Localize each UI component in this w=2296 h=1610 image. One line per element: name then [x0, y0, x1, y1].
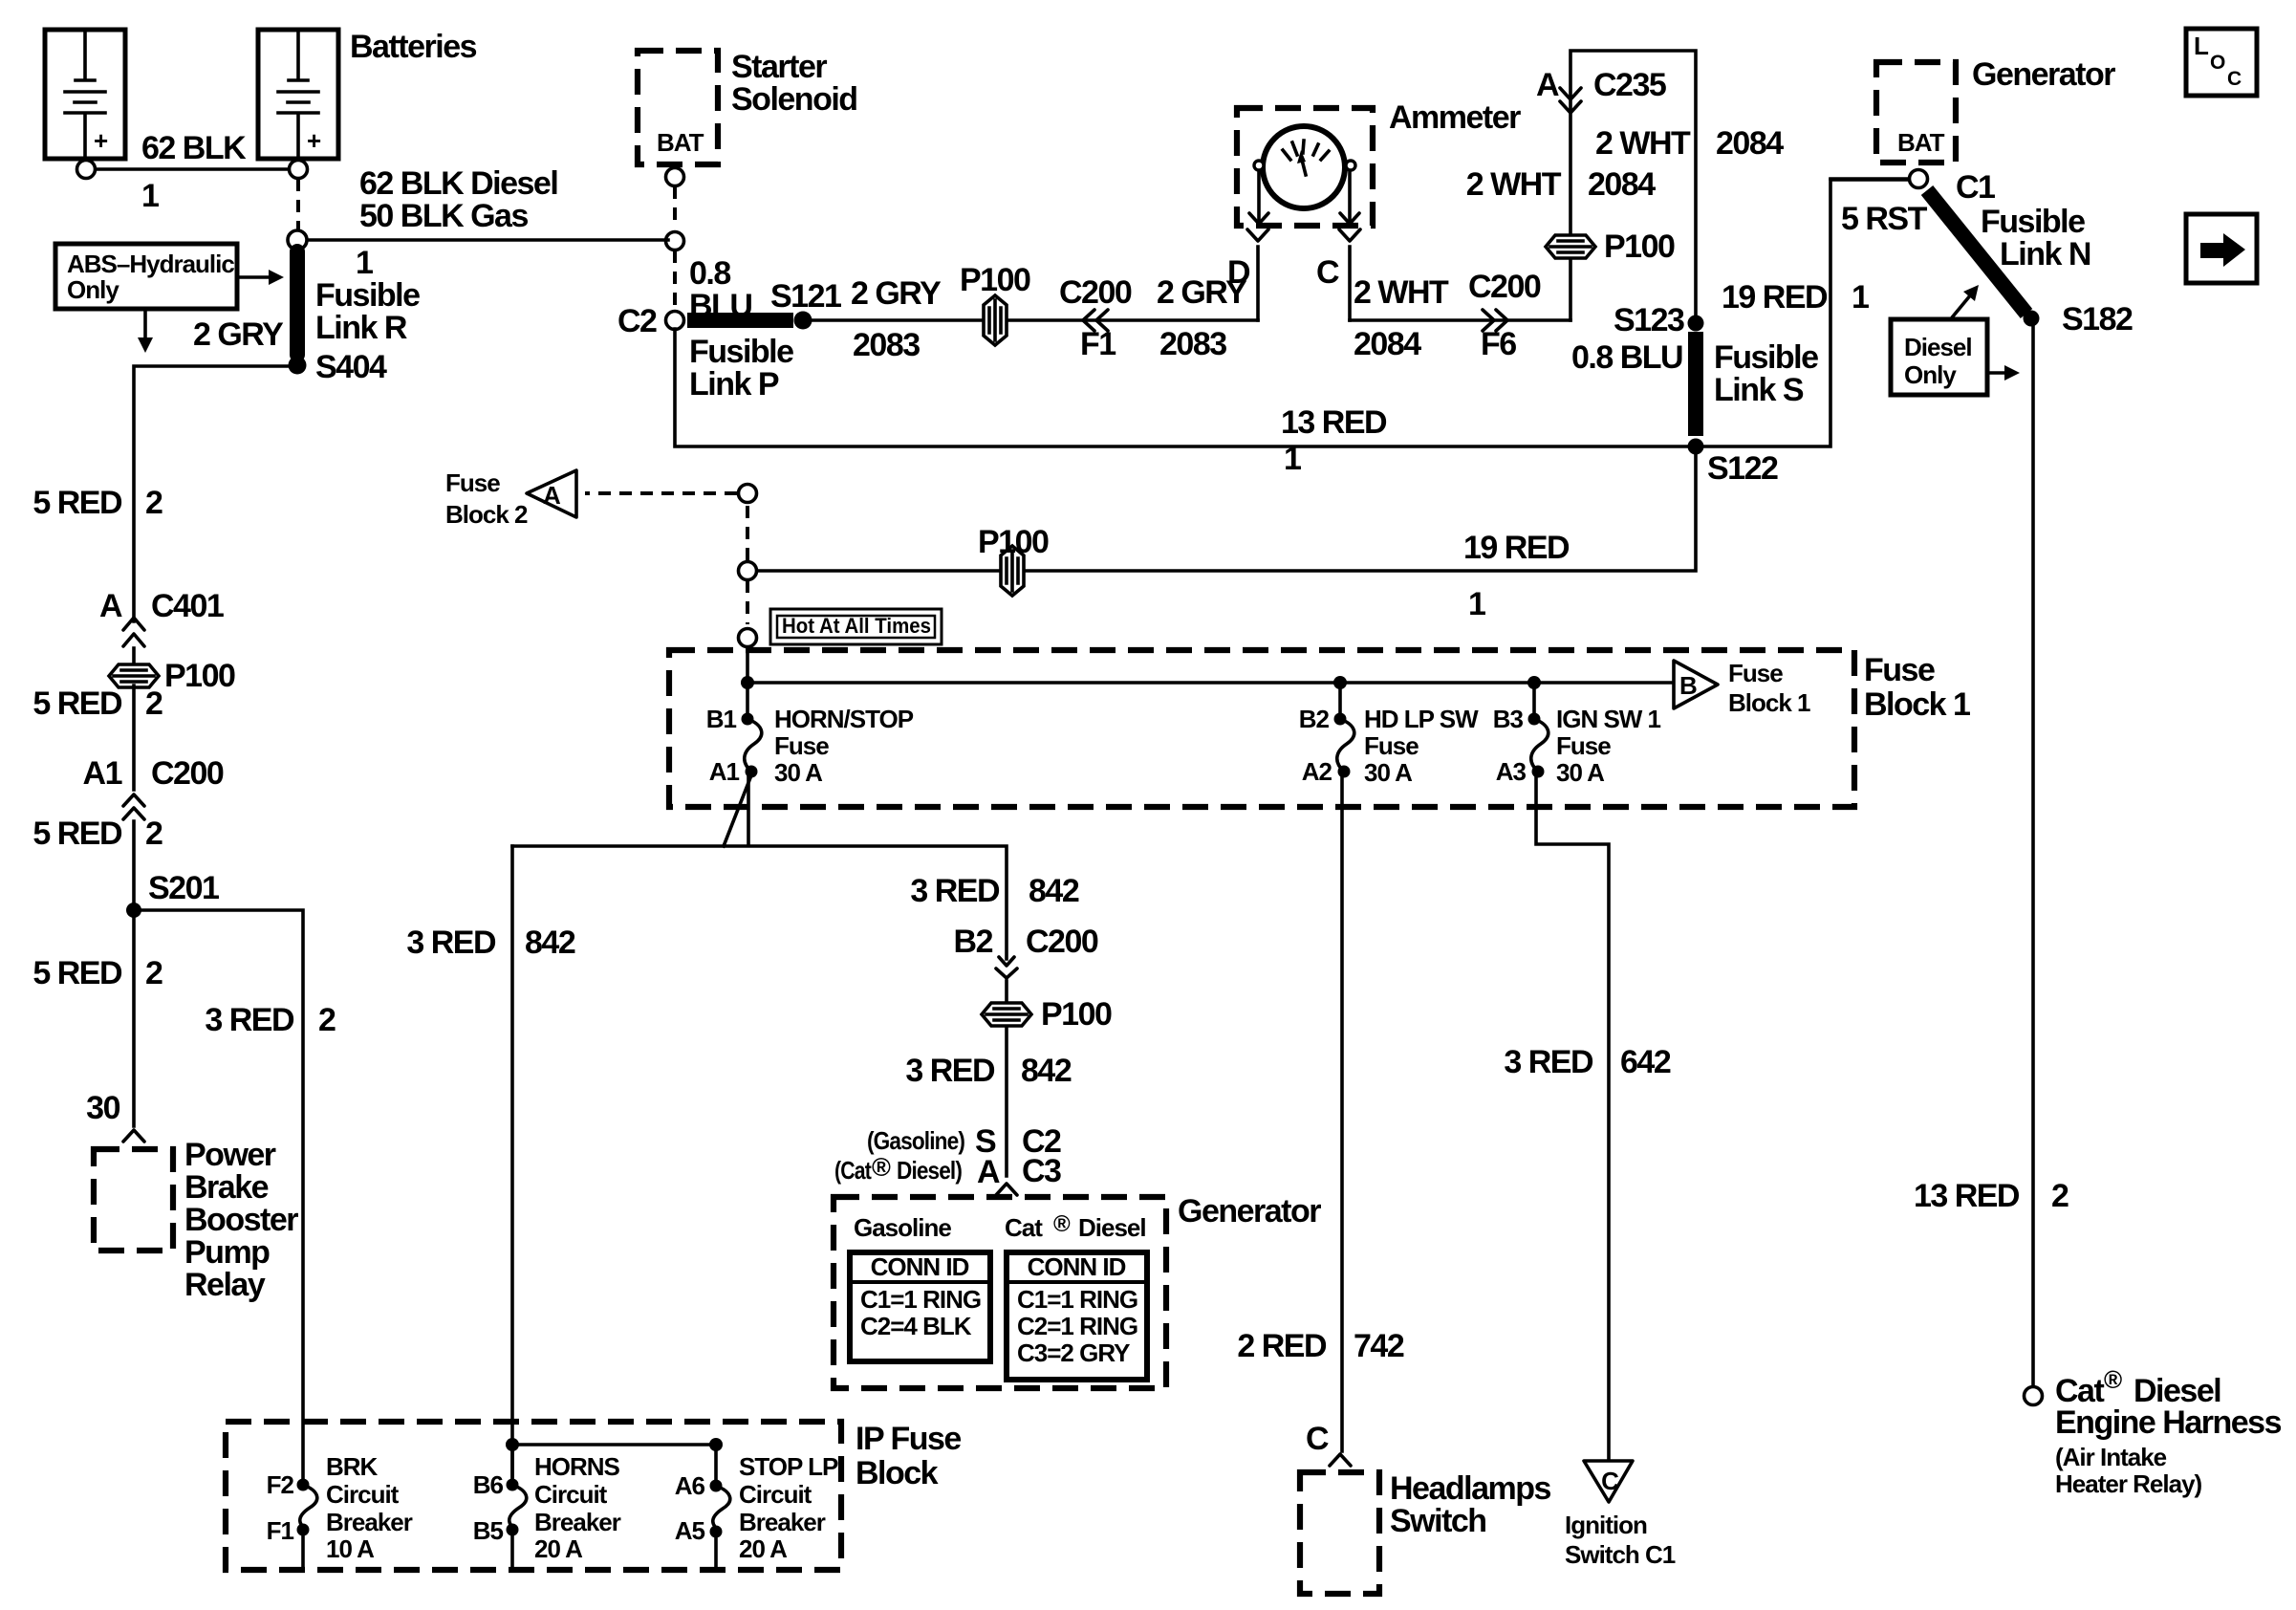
- svg-text:1: 1: [1468, 586, 1485, 622]
- svg-text:A5: A5: [675, 1516, 705, 1545]
- wire 5 RED 2: [132, 685, 136, 790]
- svg-text:S123: S123: [1614, 302, 1684, 338]
- svg-text:(Air Intake: (Air Intake: [2055, 1443, 2167, 1471]
- svg-text:Fuse: Fuse: [1864, 652, 1935, 688]
- wire BAT to 13 RED: [1830, 177, 1909, 181]
- svg-text:Gasoline: Gasoline: [854, 1213, 951, 1242]
- svg-text:Block 2: Block 2: [445, 500, 528, 529]
- svg-text:Block 1: Block 1: [1728, 688, 1810, 717]
- fuse block 1 dashed box: [669, 650, 1854, 807]
- svg-text:A6: A6: [675, 1471, 705, 1500]
- generator BAT terminal: [1910, 170, 1928, 188]
- svg-text:Fuse: Fuse: [1728, 659, 1783, 687]
- svg-text:62 BLK: 62 BLK: [141, 130, 247, 166]
- ammeter terminal left: [1254, 161, 1264, 170]
- wire left terminal down w arrow: [1257, 171, 1261, 223]
- arrow ABS to fusible link R: [237, 275, 273, 279]
- node S122: [1688, 439, 1704, 455]
- svg-text:2 WHT: 2 WHT: [1595, 125, 1691, 162]
- fuse HD LP SW 30A: [1338, 683, 1342, 719]
- svg-text:P100: P100: [1604, 228, 1675, 265]
- svg-text:3 RED: 3 RED: [910, 873, 1000, 909]
- svg-text:842: 842: [1029, 873, 1079, 909]
- node bus B3: [1527, 676, 1541, 689]
- svg-text:F6: F6: [1481, 326, 1516, 362]
- svg-text:2 WHT: 2 WHT: [1466, 166, 1562, 203]
- svg-text:A: A: [543, 481, 561, 510]
- svg-text:BAT: BAT: [657, 128, 704, 157]
- svg-text:50 BLK Gas: 50 BLK Gas: [359, 198, 528, 234]
- generator dashed box: [834, 1197, 1166, 1388]
- LOC symbol box: [2186, 29, 2257, 96]
- svg-text:®: ®: [2104, 1365, 2122, 1394]
- connector P100 left: [109, 664, 159, 687]
- wire S182 down to harness: [2031, 318, 2035, 1385]
- svg-text:2 GRY: 2 GRY: [193, 316, 284, 353]
- svg-text:C2: C2: [617, 303, 657, 339]
- ignition switch triangle C: [1584, 1461, 1633, 1502]
- fuse IGN SW 1 30A: [1532, 683, 1536, 719]
- battery 2: [258, 30, 338, 159]
- svg-text:2: 2: [145, 485, 162, 521]
- svg-text:Hot At All Times: Hot At All Times: [782, 614, 931, 638]
- svg-text:Booster: Booster: [184, 1202, 298, 1238]
- svg-text:19 RED: 19 RED: [1463, 530, 1570, 566]
- battery 1 terminal: [77, 161, 96, 179]
- svg-text:B: B: [1679, 671, 1697, 700]
- svg-text:C1=1 RING: C1=1 RING: [1017, 1285, 1137, 1314]
- wire 62 BLK between batteries: [96, 167, 289, 171]
- svg-text:2 WHT: 2 WHT: [1354, 274, 1449, 311]
- node S201: [126, 903, 141, 918]
- svg-text:®: ®: [872, 1153, 891, 1182]
- svg-text:D: D: [1227, 254, 1250, 291]
- svg-text:Relay: Relay: [184, 1267, 266, 1303]
- node S404: [289, 357, 307, 375]
- svg-text:2 GRY: 2 GRY: [851, 275, 942, 312]
- svg-text:2 RED: 2 RED: [1237, 1328, 1327, 1364]
- svg-text:B3: B3: [1493, 705, 1524, 733]
- wire 2 WHT 2084: [1350, 318, 1570, 322]
- svg-text:62 BLK Diesel: 62 BLK Diesel: [359, 165, 557, 202]
- dashed wire to fuse block 2 triangle: [585, 491, 737, 495]
- svg-text:B2: B2: [1299, 705, 1330, 733]
- svg-text:Switch C1: Switch C1: [1565, 1540, 1676, 1569]
- svg-text:Fuse: Fuse: [1364, 731, 1419, 760]
- svg-text:BRK: BRK: [326, 1452, 379, 1481]
- svg-text:Circuit: Circuit: [534, 1480, 608, 1509]
- node hot at all times: [739, 629, 757, 647]
- svg-text:S122: S122: [1707, 450, 1778, 487]
- svg-text:C3: C3: [1022, 1153, 1061, 1189]
- svg-text:ABS–Hydraulic: ABS–Hydraulic: [67, 250, 234, 278]
- wire A1 diagonal branch: [724, 775, 751, 846]
- ammeter box: [1237, 108, 1373, 226]
- connector chevron into generator: [996, 1184, 1017, 1195]
- svg-text:C200: C200: [1059, 274, 1132, 311]
- conn id table cat diesel: [1007, 1252, 1147, 1380]
- fusible link S: [1688, 332, 1703, 436]
- svg-text:2: 2: [145, 816, 162, 852]
- svg-text:P100: P100: [1041, 996, 1112, 1033]
- svg-text:A2: A2: [1302, 757, 1332, 786]
- connector P100 generator feed: [982, 1003, 1031, 1026]
- svg-text:C200: C200: [1468, 269, 1541, 305]
- svg-text:C2=1 RING: C2=1 RING: [1017, 1312, 1137, 1340]
- svg-text:2083: 2083: [853, 327, 920, 363]
- headlamps switch dashed box: [1300, 1472, 1379, 1594]
- wire C drop from ammeter: [1348, 247, 1352, 320]
- svg-text:1: 1: [1852, 279, 1869, 315]
- fusible link P: [687, 313, 793, 328]
- Hot At All Times label box: [770, 609, 942, 644]
- svg-text:O: O: [2210, 52, 2225, 74]
- svg-text:BAT: BAT: [1897, 128, 1945, 157]
- svg-text:B5: B5: [473, 1516, 504, 1545]
- svg-text:C: C: [1316, 254, 1339, 291]
- svg-text:5 RST: 5 RST: [1841, 201, 1928, 237]
- svg-text:Fusible: Fusible: [689, 334, 793, 370]
- bus wire: [747, 681, 1671, 685]
- svg-text:Solenoid: Solenoid: [731, 81, 857, 118]
- right arrow box: [2186, 214, 2257, 283]
- dashed wire junction to C2: [673, 250, 677, 308]
- svg-text:Switch: Switch: [1390, 1503, 1486, 1539]
- svg-text:C: C: [1601, 1467, 1619, 1495]
- svg-text:2: 2: [2051, 1178, 2069, 1214]
- svg-text:Link N: Link N: [2000, 236, 2090, 272]
- generator top dashed box: [1876, 62, 1956, 163]
- battery 1: [45, 30, 125, 159]
- wire loop via C235: [1570, 51, 1696, 320]
- svg-text:19 RED: 19 RED: [1722, 279, 1828, 315]
- fusible link N diagonal: [1927, 190, 2026, 314]
- diesel only box: [1891, 285, 2020, 395]
- node battery junction: [288, 230, 307, 250]
- svg-text:C200: C200: [151, 755, 224, 792]
- svg-text:(Cat: (Cat: [834, 1156, 872, 1185]
- svg-text:A: A: [1536, 67, 1559, 103]
- svg-text:5 RED: 5 RED: [32, 955, 122, 991]
- svg-text:Ignition: Ignition: [1565, 1511, 1647, 1539]
- starter BAT terminal: [666, 168, 684, 186]
- wire 13 RED 1: [675, 180, 1909, 446]
- svg-text:C1: C1: [1956, 169, 1995, 206]
- svg-text:20 A: 20 A: [534, 1534, 583, 1563]
- svg-text:IGN SW 1: IGN SW 1: [1556, 705, 1661, 733]
- svg-text:Engine Harness: Engine Harness: [2055, 1404, 2282, 1441]
- node bus B2: [1333, 676, 1347, 689]
- svg-text:A1: A1: [83, 755, 122, 792]
- svg-text:5 RED: 5 RED: [32, 816, 122, 852]
- fuse block 1 triangle B: [1674, 661, 1718, 708]
- svg-text:Generator: Generator: [1972, 56, 2115, 93]
- svg-text:Block 1: Block 1: [1864, 686, 1970, 723]
- svg-text:3 RED: 3 RED: [205, 1002, 294, 1038]
- svg-text:Only: Only: [1904, 360, 1957, 389]
- svg-text:3 RED: 3 RED: [406, 925, 496, 961]
- battery 2 terminal: [290, 161, 308, 179]
- svg-text:B6: B6: [473, 1470, 504, 1499]
- wire right terminal down w arrow: [1348, 171, 1352, 223]
- svg-text:Cat: Cat: [1005, 1213, 1043, 1242]
- ammeter terminal right: [1346, 161, 1355, 170]
- svg-text:742: 742: [1354, 1328, 1404, 1364]
- svg-text:2084: 2084: [1716, 125, 1784, 162]
- svg-text:Fuse: Fuse: [445, 468, 500, 497]
- svg-text:842: 842: [525, 925, 575, 961]
- svg-text:Circuit: Circuit: [326, 1480, 400, 1509]
- svg-text:30 A: 30 A: [774, 758, 823, 787]
- svg-text:Link R: Link R: [315, 310, 407, 346]
- wire 5 RED 2 below C200: [132, 821, 136, 910]
- connector P100 inline: [984, 295, 1007, 345]
- svg-text:C401: C401: [151, 588, 224, 624]
- svg-text:Circuit: Circuit: [739, 1480, 812, 1509]
- svg-text:®: ®: [1053, 1211, 1071, 1237]
- svg-text:5 RED: 5 RED: [32, 485, 122, 521]
- starter solenoid box: [638, 51, 718, 164]
- fuse block 2 triangle A: [527, 470, 576, 517]
- connector C200 F6 chevrons: [1483, 310, 1507, 331]
- svg-text:Only: Only: [67, 275, 119, 304]
- svg-text:S121: S121: [770, 278, 841, 315]
- svg-text:F1: F1: [1080, 326, 1116, 362]
- svg-text:30 A: 30 A: [1556, 758, 1605, 787]
- svg-text:Generator: Generator: [1178, 1193, 1321, 1229]
- node circle on 19 RED: [739, 562, 757, 580]
- wire S201 down: [132, 910, 136, 1126]
- dashed wire battery 2 down: [296, 179, 300, 229]
- svg-text:642: 642: [1620, 1044, 1671, 1080]
- connector C235 chevrons: [1560, 88, 1581, 113]
- svg-text:HORN/STOP: HORN/STOP: [774, 705, 914, 733]
- svg-text:Ammeter: Ammeter: [1389, 99, 1521, 136]
- svg-text:Power: Power: [184, 1137, 276, 1173]
- STOP LP circuit breaker: [710, 1480, 723, 1492]
- svg-text:1: 1: [1284, 441, 1301, 477]
- svg-text:B1: B1: [706, 705, 737, 733]
- svg-text:Fuse: Fuse: [1556, 731, 1611, 760]
- svg-text:Starter: Starter: [731, 49, 827, 85]
- svg-text:C: C: [1306, 1421, 1329, 1457]
- wire A3 down to ignition: [1536, 774, 1609, 1459]
- power brake booster pump relay box: [94, 1137, 298, 1303]
- svg-text:+: +: [94, 126, 108, 155]
- svg-text:HORNS: HORNS: [534, 1452, 620, 1481]
- fusible link R: [290, 251, 305, 355]
- wire 19 RED 1 from S122: [757, 446, 1696, 571]
- svg-text:C1=1 RING: C1=1 RING: [860, 1285, 981, 1314]
- node fuse block 2: [739, 485, 757, 503]
- svg-text:C: C: [2227, 68, 2242, 90]
- svg-text:C3=2 GRY: C3=2 GRY: [1017, 1338, 1130, 1367]
- svg-text:Fusible: Fusible: [1981, 204, 2085, 240]
- svg-text:A3: A3: [1496, 757, 1527, 786]
- wire A2 down to headlamps: [1340, 774, 1344, 1451]
- svg-text:Fusible: Fusible: [315, 277, 420, 314]
- svg-text:Heater Relay): Heater Relay): [2055, 1469, 2202, 1498]
- svg-text:Diesel: Diesel: [1078, 1213, 1146, 1242]
- svg-text:(Gasoline): (Gasoline): [867, 1126, 964, 1155]
- ABS-Hydraulic Only box: [55, 244, 237, 309]
- svg-text:2: 2: [318, 1002, 336, 1038]
- svg-text:2083: 2083: [1159, 326, 1226, 362]
- svg-text:A: A: [99, 588, 122, 624]
- svg-text:F1: F1: [267, 1516, 294, 1545]
- svg-text:+: +: [307, 126, 321, 155]
- svg-text:Link P: Link P: [689, 366, 779, 402]
- wire 62 BLK Diesel / 50 BLK Gas: [308, 238, 668, 242]
- svg-text:Diesel): Diesel): [897, 1156, 962, 1185]
- svg-text:Block: Block: [856, 1455, 939, 1491]
- C2 terminal: [666, 312, 684, 330]
- svg-text:IP Fuse: IP Fuse: [856, 1421, 961, 1457]
- fuse HORN/STOP 30A: [746, 683, 749, 719]
- svg-text:Fusible: Fusible: [1714, 339, 1818, 376]
- node S123: [1688, 315, 1704, 332]
- node bus B1: [741, 676, 754, 689]
- svg-text:5 RED: 5 RED: [32, 685, 122, 722]
- svg-text:13 RED: 13 RED: [1281, 404, 1387, 441]
- wire into fuse block 1: [746, 647, 749, 683]
- svg-text:CONN ID: CONN ID: [871, 1252, 969, 1281]
- connector C200 F1 chevrons: [1083, 310, 1108, 331]
- dashed wire down to hot node: [746, 580, 749, 624]
- Cat diesel engine harness terminal: [2025, 1387, 2043, 1405]
- HORNS circuit breaker: [506, 1438, 519, 1451]
- svg-text:C2=4 BLK: C2=4 BLK: [860, 1312, 972, 1340]
- connector P100 on C235 wire: [1546, 235, 1595, 258]
- BRK circuit breaker: [297, 1479, 310, 1491]
- svg-text:30: 30: [86, 1090, 119, 1126]
- svg-text:1: 1: [356, 245, 373, 281]
- svg-text:Breaker: Breaker: [739, 1508, 826, 1536]
- svg-text:0.8 BLU: 0.8 BLU: [1571, 339, 1682, 376]
- svg-text:3 RED: 3 RED: [1504, 1044, 1593, 1080]
- svg-text:0.8: 0.8: [689, 255, 730, 292]
- svg-text:20 A: 20 A: [739, 1534, 788, 1563]
- connector P100 on 19 RED: [1001, 546, 1024, 596]
- svg-text:Fuse: Fuse: [774, 731, 829, 760]
- svg-text:P100: P100: [960, 262, 1030, 298]
- wire A1 to generator: [512, 774, 1007, 1176]
- svg-text:10 A: 10 A: [326, 1534, 375, 1563]
- svg-text:Link S: Link S: [1714, 372, 1804, 408]
- IP fuse block dashed box: [226, 1422, 841, 1570]
- svg-text:A1: A1: [709, 757, 740, 786]
- svg-text:13 RED: 13 RED: [1914, 1178, 2020, 1214]
- svg-text:S182: S182: [2062, 301, 2133, 337]
- wire B6 to A6: [512, 1445, 716, 1481]
- svg-text:3 RED: 3 RED: [905, 1053, 995, 1089]
- svg-text:Breaker: Breaker: [326, 1508, 413, 1536]
- node wire junction: [666, 232, 684, 250]
- svg-text:C235: C235: [1593, 67, 1666, 103]
- ammeter gauge: [1263, 126, 1345, 208]
- svg-text:CONN ID: CONN ID: [1028, 1252, 1126, 1281]
- svg-text:P100: P100: [164, 658, 235, 694]
- wire S201 branch to IP fuse block: [134, 910, 303, 1481]
- svg-text:842: 842: [1021, 1053, 1072, 1089]
- svg-text:30 A: 30 A: [1364, 758, 1413, 787]
- svg-text:2084: 2084: [1588, 166, 1656, 203]
- svg-text:2: 2: [145, 685, 162, 722]
- wire below C401: [132, 648, 136, 664]
- wire 2 GRY 2083: [812, 318, 1258, 322]
- svg-text:2: 2: [145, 955, 162, 991]
- svg-text:S404: S404: [315, 349, 387, 385]
- svg-text:S201: S201: [148, 870, 219, 906]
- svg-text:B2: B2: [954, 924, 993, 960]
- dashed wire up to fuse block 2 node: [746, 504, 749, 560]
- dashed wire BAT to junction: [673, 186, 677, 228]
- svg-text:C200: C200: [1026, 924, 1098, 960]
- svg-text:P100: P100: [978, 524, 1049, 560]
- svg-text:A: A: [977, 1154, 1000, 1190]
- wire S404 to left column: [134, 366, 297, 621]
- arrow ABS down to 2 GRY wire: [143, 309, 147, 340]
- svg-text:2084: 2084: [1354, 326, 1421, 362]
- wire D drop to ammeter: [1256, 247, 1260, 320]
- conn id table gasoline: [850, 1252, 990, 1361]
- svg-text:Headlamps: Headlamps: [1390, 1470, 1550, 1507]
- svg-text:Pump: Pump: [184, 1234, 270, 1271]
- svg-text:STOP LP: STOP LP: [739, 1452, 838, 1481]
- svg-text:Brake: Brake: [184, 1169, 269, 1206]
- svg-text:Batteries: Batteries: [350, 29, 477, 65]
- svg-text:1: 1: [141, 178, 159, 214]
- svg-text:F2: F2: [267, 1470, 294, 1499]
- svg-text:HD LP SW: HD LP SW: [1364, 705, 1479, 733]
- svg-text:L: L: [2194, 32, 2209, 60]
- svg-text:Breaker: Breaker: [534, 1508, 621, 1536]
- svg-text:Diesel: Diesel: [1904, 333, 1972, 361]
